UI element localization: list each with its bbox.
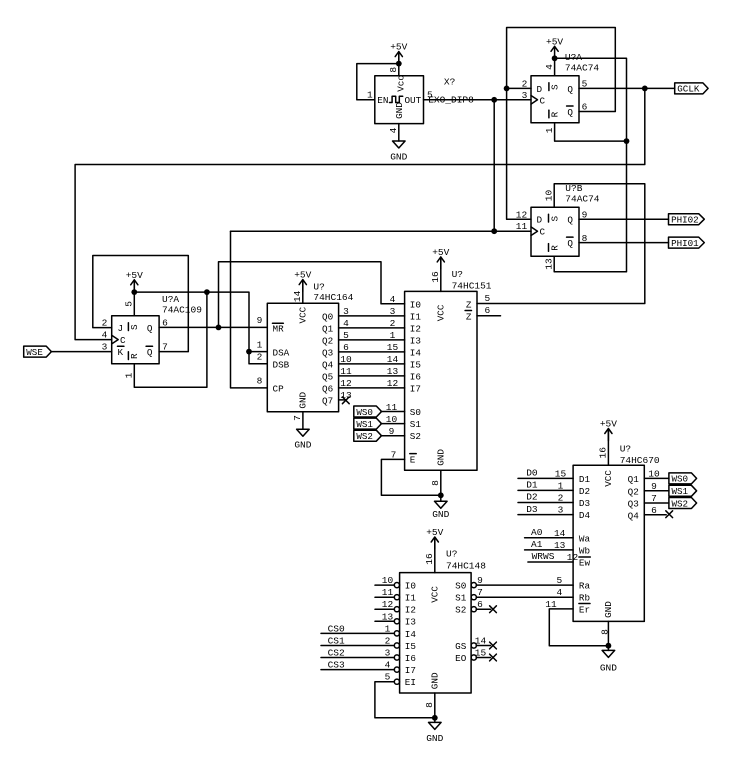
- svg-text:Q1: Q1: [628, 474, 640, 485]
- svg-text:GND: GND: [390, 152, 407, 163]
- svg-text:8: 8: [388, 67, 399, 73]
- svg-text:S: S: [549, 216, 560, 222]
- node - U?A +5V junction: [552, 55, 558, 61]
- svg-text:A1: A1: [531, 539, 543, 550]
- svg-text:1: 1: [367, 90, 373, 101]
- svg-text:9: 9: [389, 426, 395, 437]
- wire - 74HC151 pin 8 GND stub: [440, 470, 442, 501]
- svg-text:Wa: Wa: [579, 533, 591, 544]
- node - GCLK junction: [642, 86, 648, 92]
- svg-text:MR: MR: [273, 323, 285, 334]
- svg-text:14: 14: [475, 636, 487, 647]
- wire - stub to U?A pin 2 D: [507, 87, 531, 89]
- svg-text:VCC: VCC: [435, 304, 446, 321]
- svg-text:6: 6: [651, 505, 657, 516]
- svg-text:WS0: WS0: [672, 474, 689, 485]
- wire - CS2 to 74HC148 I6: [321, 657, 394, 659]
- power +5V at 74HC670: [600, 419, 617, 441]
- ground at oscillator: [390, 141, 407, 163]
- svg-text:Ew: Ew: [579, 558, 591, 569]
- wire - 74HC670 Q3 to WS2: [644, 502, 669, 504]
- svg-text:U?: U?: [452, 269, 463, 280]
- power +5V at 74HC148: [426, 527, 443, 549]
- wire - 74HC151 Z-bar stub: [477, 315, 501, 317]
- node - U?A D junction: [504, 86, 510, 92]
- svg-text:I0: I0: [405, 581, 416, 592]
- svg-text:CS2: CS2: [328, 648, 345, 659]
- wire - WSE to 74AC109 pin 3 K: [51, 351, 112, 353]
- svg-text:GND: GND: [429, 672, 440, 689]
- svg-text:Q6: Q6: [322, 383, 333, 394]
- node - clock net junction at U?B C: [491, 228, 497, 234]
- svg-text:D3: D3: [579, 498, 590, 509]
- svg-text:GCLK: GCLK: [677, 84, 700, 95]
- flip-flop U?A reference: [565, 52, 582, 63]
- net label CS1: [328, 636, 345, 647]
- wire - CS1 to 74HC148 I5: [321, 645, 394, 647]
- svg-text:I4: I4: [405, 629, 417, 640]
- power +5V at U?A 74AC109: [126, 270, 143, 292]
- svg-text:D3: D3: [526, 504, 538, 515]
- svg-text:8: 8: [600, 629, 611, 635]
- wire - 74HC164 Q3 to 74HC151 I4: [339, 351, 405, 353]
- svg-text:14: 14: [387, 354, 399, 365]
- net label D2: [526, 492, 538, 503]
- oscillator pin number 8: [388, 67, 399, 73]
- svg-text:12: 12: [340, 378, 352, 389]
- svg-text:7: 7: [292, 415, 303, 421]
- svg-text:74HC151: 74HC151: [452, 281, 492, 292]
- output label PHI02: [669, 214, 705, 226]
- svg-text:7: 7: [162, 341, 168, 352]
- output label WS2 at 74HC670: [669, 498, 697, 510]
- 74HC670 value: [620, 455, 660, 466]
- svg-text:10: 10: [544, 189, 555, 201]
- svg-text:D: D: [537, 215, 543, 226]
- svg-text:U?B: U?B: [565, 183, 582, 194]
- wire - WS0 to 74HC151 S0: [381, 411, 405, 413]
- svg-text:PHI02: PHI02: [671, 215, 699, 226]
- svg-text:3: 3: [390, 306, 396, 317]
- svg-text:16: 16: [424, 553, 435, 565]
- svg-text:7: 7: [651, 493, 657, 504]
- wire - clock net to 74HC164 CP: [231, 231, 268, 388]
- svg-text:74HC670: 74HC670: [620, 455, 660, 466]
- svg-text:S0: S0: [455, 581, 466, 592]
- svg-text:8: 8: [582, 233, 588, 244]
- svg-text:I1: I1: [405, 593, 417, 604]
- svg-text:4: 4: [388, 127, 399, 133]
- svg-text:Q: Q: [147, 323, 153, 334]
- wire - oscillator OUT to U?A pin 3: [424, 99, 532, 101]
- no-connect X at 74HC148 EO: [490, 654, 497, 661]
- svg-text:D4: D4: [579, 510, 591, 521]
- wire - 74HC148 pin 8 GND stub: [434, 693, 436, 722]
- svg-text:I7: I7: [405, 665, 416, 676]
- svg-text:Z: Z: [466, 311, 472, 322]
- svg-text:S1: S1: [410, 419, 422, 430]
- svg-text:U?: U?: [446, 549, 457, 560]
- svg-text:C: C: [540, 227, 546, 238]
- svg-text:13: 13: [387, 366, 399, 377]
- svg-text:Q1: Q1: [322, 323, 334, 334]
- svg-text:D0: D0: [526, 468, 538, 479]
- svg-text:Q7: Q7: [322, 395, 333, 406]
- svg-text:EO: EO: [455, 653, 467, 664]
- output label GCLK: [675, 83, 708, 95]
- svg-text:3: 3: [522, 90, 528, 101]
- wire - WRWS to 74HC670 Ew: [528, 561, 573, 563]
- no-connect X at 74HC164 Q7: [342, 397, 349, 404]
- svg-text:R: R: [550, 111, 561, 117]
- wire - 74AC109 pin 1 R loop to +5V: [134, 292, 207, 387]
- svg-text:2: 2: [390, 318, 396, 329]
- svg-text:16: 16: [598, 447, 609, 459]
- svg-text:12: 12: [567, 552, 579, 563]
- net label A0: [531, 527, 543, 538]
- wire - 74HC148 EI to GND loop: [375, 682, 435, 718]
- oscillator X1 EXO_DIP8 body: [375, 75, 424, 124]
- 74HC670 reference U?: [620, 444, 631, 455]
- no-connect X at 74HC670 Q4: [666, 511, 673, 518]
- svg-text:5: 5: [557, 575, 563, 586]
- wire - oscillator pin 8 Vcc stub: [398, 52, 400, 76]
- wire - WS2 to 74HC151 S2: [381, 435, 405, 437]
- svg-text:2: 2: [102, 317, 108, 328]
- wire - +5V to U?B pin 13 R loop: [554, 58, 626, 271]
- svg-text:6: 6: [477, 599, 483, 610]
- node - DSA/DSB junction: [246, 349, 252, 355]
- svg-text:S: S: [129, 324, 140, 330]
- svg-text:2: 2: [522, 79, 528, 90]
- wire - U?A Q-bar feedback to D inputs: [507, 28, 616, 220]
- svg-text:8: 8: [430, 480, 441, 486]
- wire - 74AC109 Q to 74HC151 I0: [219, 262, 405, 328]
- wire - oscillator pin 4 GND stub: [398, 124, 400, 141]
- 74HC164 value: [313, 292, 353, 303]
- wire - 74HC148 EO stub: [476, 657, 490, 659]
- svg-text:WS2: WS2: [672, 498, 689, 509]
- svg-text:GND: GND: [600, 662, 617, 673]
- svg-text:4: 4: [544, 64, 555, 70]
- no-connect X at 74HC148 S2: [490, 606, 497, 613]
- register file 74HC670 body: [573, 465, 644, 621]
- svg-text:4: 4: [343, 318, 349, 329]
- input label WS2 at 74HC151: [354, 430, 382, 442]
- svg-text:GND: GND: [426, 733, 443, 744]
- wire - 74AC109 J to Q-bar loop: [93, 256, 189, 352]
- wire - 74HC164 pin 14 VCC stub: [302, 280, 304, 304]
- svg-text:U?A: U?A: [565, 52, 582, 63]
- wire - 74HC164 Q4 to 74HC151 I5: [339, 363, 405, 365]
- svg-text:5: 5: [343, 330, 349, 341]
- svg-text:13: 13: [544, 258, 555, 270]
- power +5V at 74HC164: [294, 270, 311, 292]
- svg-text:EXO_DIP8: EXO_DIP8: [428, 94, 474, 105]
- svg-text:Rb: Rb: [579, 593, 590, 604]
- node - 74HC670 GND junction: [606, 643, 612, 649]
- svg-text:J: J: [118, 323, 124, 334]
- node - U?A R junction: [624, 138, 630, 144]
- svg-text:U?A: U?A: [162, 294, 179, 305]
- svg-text:WS1: WS1: [672, 486, 689, 497]
- svg-text:13: 13: [340, 390, 352, 401]
- node - 74HC151 GND junction: [438, 492, 444, 498]
- flip-flop U?B value 74AC74: [565, 194, 600, 205]
- svg-text:I4: I4: [410, 347, 422, 358]
- svg-text:5: 5: [385, 672, 391, 683]
- wire - 74HC148 pin 16 VCC stub: [434, 538, 436, 573]
- node - clock net junction at U?A C: [491, 97, 497, 103]
- svg-text:D2: D2: [579, 486, 590, 497]
- svg-text:7: 7: [391, 449, 397, 460]
- node - 74HC148 GND junction: [432, 715, 438, 721]
- svg-text:11: 11: [545, 599, 557, 610]
- wire - CS3 to 74HC148 I7: [321, 669, 394, 671]
- svg-text:9: 9: [582, 209, 588, 220]
- svg-text:D1: D1: [526, 480, 538, 491]
- svg-text:GND: GND: [432, 509, 449, 520]
- svg-text:16: 16: [430, 271, 441, 283]
- flip-flop 74AC109 pin numbers: [102, 301, 169, 379]
- svg-text:74HC148: 74HC148: [446, 561, 486, 572]
- flip-flop 74AC109 reference U?A: [162, 294, 179, 305]
- svg-text:9: 9: [257, 315, 263, 326]
- svg-text:S1: S1: [455, 593, 467, 604]
- svg-text:D: D: [537, 84, 543, 95]
- svg-text:6: 6: [162, 317, 168, 328]
- svg-text:VCC: VCC: [429, 586, 440, 603]
- ground at 74HC164: [294, 429, 311, 451]
- 74HC148 value: [446, 561, 486, 572]
- svg-text:+5V: +5V: [432, 247, 449, 258]
- svg-text:1: 1: [124, 372, 135, 378]
- output label PHI01: [669, 237, 705, 249]
- svg-text:4: 4: [102, 329, 108, 340]
- svg-text:DSA: DSA: [273, 347, 290, 358]
- svg-text:+5V: +5V: [546, 36, 563, 47]
- svg-text:GS: GS: [455, 641, 467, 652]
- svg-text:GND: GND: [394, 102, 405, 119]
- svg-text:K: K: [118, 347, 124, 358]
- svg-text:11: 11: [340, 366, 352, 377]
- flip-flop U?A value 74AC74: [565, 62, 600, 73]
- svg-text:10: 10: [340, 354, 352, 365]
- svg-text:5: 5: [484, 293, 490, 304]
- wire - oscillator EN to +5V loop: [357, 64, 399, 100]
- svg-text:VCC: VCC: [297, 306, 308, 323]
- svg-text:14: 14: [554, 528, 566, 539]
- svg-text:GND: GND: [603, 601, 614, 618]
- svg-text:S: S: [550, 84, 561, 90]
- wire - CS0 to 74HC148 I4: [321, 632, 394, 634]
- net label WRWS: [532, 551, 555, 562]
- svg-text:S2: S2: [410, 431, 421, 442]
- wire - 74AC109 Q to 74HC164 MR: [159, 326, 267, 328]
- svg-text:GND: GND: [294, 440, 311, 451]
- wire - D0 to 74HC670 D1: [518, 477, 573, 479]
- svg-text:PHI01: PHI01: [671, 238, 699, 249]
- input label WSE: [24, 346, 52, 358]
- svg-text:D1: D1: [579, 474, 591, 485]
- 74HC151 reference U?: [452, 269, 463, 280]
- svg-text:5: 5: [582, 79, 588, 90]
- no-connect X at 74HC148 GS: [490, 642, 497, 649]
- svg-text:CS1: CS1: [328, 636, 345, 647]
- wire - WS1 to 74HC151 S1: [381, 423, 405, 425]
- 74HC670 pin numbers: [545, 447, 660, 635]
- svg-text:10: 10: [648, 468, 660, 479]
- svg-text:WS1: WS1: [356, 419, 373, 430]
- svg-text:74HC164: 74HC164: [313, 292, 353, 303]
- wire - 74HC151 E to GND loop: [381, 459, 440, 495]
- svg-text:+5V: +5V: [294, 270, 311, 281]
- wire - 74HC164 Q0 to 74HC151 I1: [339, 315, 405, 317]
- svg-text:I3: I3: [410, 335, 421, 346]
- svg-text:Q4: Q4: [322, 359, 334, 370]
- svg-text:WSE: WSE: [26, 347, 43, 358]
- flip-flop U?A 74AC109 body: [112, 316, 159, 364]
- svg-text:Ra: Ra: [579, 581, 591, 592]
- svg-text:I2: I2: [405, 605, 416, 616]
- svg-text:10: 10: [386, 414, 398, 425]
- svg-text:4: 4: [557, 587, 563, 598]
- node - oscillator Vcc junction: [396, 61, 402, 67]
- svg-text:Q4: Q4: [628, 510, 640, 521]
- svg-text:CP: CP: [273, 384, 285, 395]
- svg-text:Wb: Wb: [579, 545, 590, 556]
- svg-text:Q2: Q2: [322, 335, 333, 346]
- svg-text:74AC74: 74AC74: [565, 62, 600, 73]
- svg-text:EN: EN: [377, 95, 388, 106]
- svg-text:1: 1: [544, 127, 555, 133]
- svg-text:VCC: VCC: [603, 470, 614, 487]
- svg-text:12: 12: [382, 599, 394, 610]
- svg-text:I5: I5: [410, 359, 421, 370]
- svg-text:I1: I1: [410, 311, 422, 322]
- svg-text:E: E: [410, 455, 416, 466]
- svg-text:R: R: [129, 353, 140, 359]
- wire - 74HC148 I1 stub: [375, 596, 394, 598]
- wire - 74HC148 I3 stub: [375, 620, 394, 622]
- svg-text:Q: Q: [567, 84, 573, 95]
- svg-text:Q5: Q5: [322, 371, 333, 382]
- flip-flop U?A 74AC74 body: [531, 76, 579, 123]
- svg-text:13: 13: [554, 540, 566, 551]
- svg-text:Q3: Q3: [322, 347, 333, 358]
- wire - 74HC164 Q5 to 74HC151 I6: [339, 375, 405, 377]
- svg-text:DSB: DSB: [273, 360, 290, 371]
- flip-flop U?B pin numbers: [516, 189, 588, 269]
- svg-text:4: 4: [390, 294, 396, 305]
- svg-text:Q0: Q0: [322, 311, 333, 322]
- 74HC151 pin numbers: [386, 271, 491, 486]
- svg-text:9: 9: [651, 481, 657, 492]
- node - 74AC109 +5V junction: [131, 289, 137, 295]
- svg-text:15: 15: [387, 342, 399, 353]
- svg-text:15: 15: [555, 468, 567, 479]
- svg-text:4: 4: [385, 660, 391, 671]
- wire - 74HC164 Q6 to 74HC151 I7: [339, 387, 405, 389]
- wire - U?B Q-bar to PHI01: [579, 242, 669, 244]
- svg-text:74AC109: 74AC109: [162, 304, 202, 315]
- wire - 74AC109 pin 5 S to +5V: [133, 280, 135, 316]
- power +5V at U?A 74AC74: [546, 36, 563, 58]
- net label CS0: [328, 623, 345, 634]
- svg-text:+5V: +5V: [600, 419, 617, 430]
- svg-text:11: 11: [386, 402, 398, 413]
- net label A1: [531, 539, 543, 550]
- svg-text:GND: GND: [298, 391, 309, 408]
- svg-text:+5V: +5V: [126, 270, 143, 281]
- wire - GCLK to 74AC109 pin 4 C: [75, 88, 645, 339]
- wire - clock net to U?B pin 11: [231, 230, 532, 232]
- 74HC148 pin numbers: [382, 553, 487, 708]
- svg-text:S2: S2: [455, 605, 466, 616]
- svg-text:Q2: Q2: [628, 486, 639, 497]
- svg-text:1: 1: [390, 330, 396, 341]
- wire - U?B Q to PHI02: [579, 218, 669, 220]
- svg-text:Q: Q: [147, 347, 153, 358]
- wire - D3 to 74HC670 D4: [518, 514, 573, 516]
- net label D0: [526, 468, 538, 479]
- ground at 74HC670: [600, 650, 617, 673]
- priority encoder 74HC148 body: [394, 573, 476, 693]
- svg-text:I3: I3: [405, 617, 416, 628]
- svg-text:WRWS: WRWS: [532, 551, 555, 562]
- flip-flop U?B 74AC74 body: [531, 207, 579, 256]
- wire - 74HC164 pin 7 GND stub: [302, 412, 304, 429]
- net label D3: [526, 504, 538, 515]
- svg-text:8: 8: [257, 376, 263, 387]
- flip-flop 74AC109 value: [162, 304, 202, 315]
- svg-text:I5: I5: [405, 641, 416, 652]
- svg-text:6: 6: [343, 342, 349, 353]
- wire - U?A Q to GCLK: [579, 87, 675, 89]
- ground at 74HC151: [432, 501, 449, 520]
- svg-text:Q: Q: [567, 215, 573, 226]
- flip-flop U?B reference: [565, 183, 582, 194]
- wire - D2 to 74HC670 D3: [518, 502, 573, 504]
- wire - DSA to DSB tie: [249, 352, 267, 364]
- wire - 74HC148 I2 stub: [375, 608, 394, 610]
- svg-text:Z: Z: [466, 299, 472, 310]
- svg-text:15: 15: [475, 648, 487, 659]
- svg-text:CS0: CS0: [328, 623, 345, 634]
- svg-text:C: C: [540, 95, 546, 106]
- svg-text:WS2: WS2: [356, 431, 373, 442]
- svg-text:1: 1: [558, 480, 564, 491]
- input label WS0 at 74HC151: [354, 406, 382, 418]
- wire - clock net vertical: [493, 100, 495, 231]
- wire - 74HC670 Q1 to WS0: [644, 477, 669, 479]
- svg-text:11: 11: [382, 587, 394, 598]
- 74HC164 pin numbers: [257, 290, 352, 421]
- wire - 74HC148 S0 to 74HC670 Ra: [476, 584, 573, 586]
- svg-text:Q: Q: [567, 107, 573, 118]
- oscillator pin number 5: [427, 90, 433, 101]
- svg-text:U?: U?: [620, 444, 631, 455]
- wire - +5V to 74HC164 DSA: [134, 292, 267, 352]
- svg-text:3: 3: [385, 648, 391, 659]
- flip-flop U?A pin numbers: [522, 64, 588, 133]
- svg-text:I2: I2: [410, 323, 421, 334]
- svg-text:U?: U?: [313, 282, 324, 293]
- svg-text:D2: D2: [526, 492, 538, 503]
- svg-text:I7: I7: [410, 383, 421, 394]
- wire - 74HC151 Z to U?B pin 10 S: [477, 184, 645, 304]
- wire - 74HC148 S1 to 74HC670 Rb: [476, 596, 573, 598]
